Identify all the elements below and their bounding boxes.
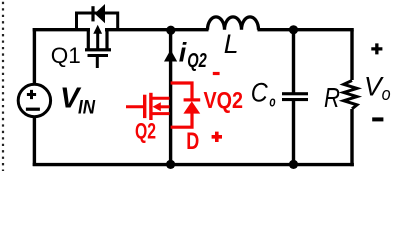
gate bar [88, 54, 109, 57]
wire: right branch lower [350, 109, 353, 166]
node: capacitor top junction [289, 25, 298, 34]
wire: top rail left segment [33, 28, 90, 31]
svg-text:i: i [179, 38, 187, 68]
gate lead [96, 57, 99, 69]
diode D1 triangle [95, 4, 105, 23]
node: switch branch bottom junction [166, 160, 175, 169]
wire: cap branch lower [292, 100, 295, 164]
source lead [88, 30, 90, 49]
diode D1 cathode bar [91, 6, 94, 21]
channel bar [85, 48, 111, 51]
output plus [371, 43, 382, 54]
current arrow iQ2 [164, 50, 177, 62]
arrow shaft [160, 105, 170, 108]
wire: top rail from Q1 to inductor [105, 28, 209, 31]
svg-text:Q2: Q2 [135, 118, 156, 143]
wire: right branch upper [352, 30, 354, 80]
svg-text:D: D [186, 128, 199, 155]
arrow head of Q2 [153, 102, 161, 111]
wire: left branch from rail down to source Vin [33, 28, 36, 85]
source stub [151, 112, 170, 115]
wire: top rail from inductor to output corner [258, 28, 354, 31]
inductor L [208, 17, 259, 30]
body diode D of Q2 (red loop) [171, 83, 201, 127]
wire: left branch from source down to bottom rail [33, 117, 36, 167]
svg-text:o: o [269, 94, 275, 111]
transistor Q2 (red) [126, 93, 170, 120]
wire: cap branch upper [292, 30, 295, 93]
node: capacitor bottom junction [289, 160, 298, 169]
svg-text:C: C [251, 78, 269, 108]
polarity plus (red) [212, 132, 222, 142]
svg-text:Q2: Q2 [187, 50, 207, 72]
resistor R [344, 81, 357, 109]
arrow [96, 32, 99, 49]
diode D triangle [183, 101, 200, 113]
voltage source VIN [18, 84, 50, 116]
svg-text:IN: IN [78, 98, 96, 119]
gate bar [143, 95, 146, 118]
svg-text:VQ2: VQ2 [204, 87, 244, 113]
polarity minus (red) [213, 72, 220, 75]
wire: bottom rail [33, 163, 354, 166]
wire: switch node down to bottom rail [169, 30, 172, 165]
node: switch node junction [166, 26, 175, 35]
svg-text:o: o [382, 83, 391, 104]
svg-text:L: L [224, 29, 239, 59]
capacitor Co [282, 92, 308, 101]
transistor Q1 [85, 25, 111, 68]
channel bar [149, 93, 152, 120]
gate lead [126, 105, 143, 108]
body diode of Q1 (anti-parallel loop) [77, 4, 118, 30]
diode D cathode bar [184, 98, 201, 101]
svg-text:Q1: Q1 [51, 43, 81, 68]
output minus [372, 117, 383, 121]
decorative dotted border (no label) [2, 2, 4, 171]
drain stub [151, 97, 170, 100]
drain lead [105, 30, 107, 49]
svg-text:R: R [324, 82, 340, 113]
